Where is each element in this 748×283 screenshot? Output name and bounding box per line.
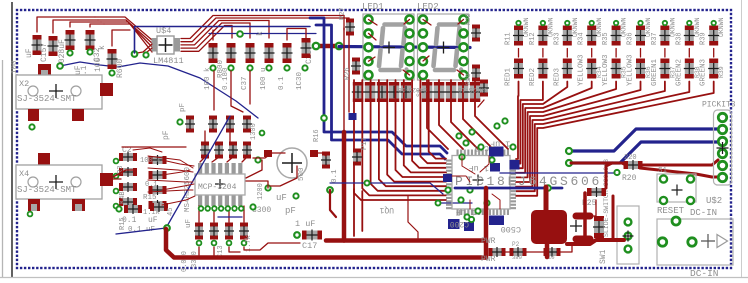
svg-text:0.1: 0.1 bbox=[145, 181, 158, 189]
label R25 bbox=[582, 199, 597, 208]
resistor R18 bbox=[352, 149, 362, 166]
wire fan into U1 top pins bbox=[427, 80, 508, 149]
capacitor C36 bbox=[264, 43, 275, 63]
wire X4 pad to cluster bbox=[113, 170, 134, 179]
via under C31 bbox=[67, 50, 72, 55]
wire bbox=[122, 146, 186, 148]
power mosfet Q1 pad bbox=[531, 210, 567, 244]
resistor R48 bbox=[457, 82, 469, 102]
capacitor C40 (bottom layer) bbox=[489, 147, 504, 157]
display pad bbox=[365, 57, 373, 65]
trimpot R16 bbox=[264, 148, 318, 178]
pad X4 bottom-right bbox=[72, 199, 85, 211]
via bbox=[143, 52, 148, 57]
svg-text:YELLOW3: YELLOW3 bbox=[602, 54, 610, 86]
resistor R17 bbox=[321, 152, 331, 169]
resistor R44 bbox=[400, 82, 412, 102]
via bbox=[237, 31, 243, 37]
cross bbox=[570, 220, 582, 232]
label SW1 bbox=[599, 249, 608, 264]
label GREEN1 bbox=[651, 58, 659, 86]
via bbox=[638, 21, 642, 25]
svg-text:X4: X4 bbox=[19, 169, 29, 179]
header pad 2 bbox=[718, 125, 726, 133]
thick vertical trace bbox=[342, 132, 347, 241]
resistor RM0 bbox=[149, 155, 167, 165]
pad X2 right bbox=[100, 83, 113, 96]
svg-text:k: k bbox=[98, 45, 107, 50]
vias bbox=[177, 119, 332, 209]
label LED2 bbox=[417, 2, 439, 12]
via bbox=[321, 115, 327, 121]
display pad bbox=[365, 71, 373, 79]
thick tab upper bbox=[576, 213, 590, 220]
via row under MCP bbox=[199, 206, 244, 211]
svg-text:R27: R27 bbox=[339, 7, 347, 20]
capacitor C57 bbox=[242, 116, 252, 133]
resistor R29 bbox=[479, 80, 489, 97]
capacitor C60 bbox=[194, 223, 204, 240]
label YELLOW3 bbox=[627, 54, 635, 86]
header pad 1 bbox=[718, 113, 726, 121]
display pad bbox=[406, 71, 414, 79]
label C30 bbox=[217, 245, 225, 258]
blue signal wire bbox=[60, 62, 258, 118]
via bbox=[687, 21, 691, 25]
svg-text:S1: S1 bbox=[658, 167, 668, 175]
label 100 left bbox=[11, 60, 19, 74]
blue under mcp bbox=[218, 216, 242, 218]
resistor R46 bbox=[433, 82, 445, 102]
svg-text:100: 100 bbox=[11, 60, 19, 74]
capacitor C102 (bottom layer) bbox=[489, 216, 504, 226]
wire bbox=[518, 49, 520, 58]
DC-IN pad3 bbox=[688, 238, 696, 246]
label bbox=[241, 76, 249, 90]
label R11 bbox=[505, 32, 513, 45]
label 10 bbox=[548, 254, 555, 261]
label LM4811 bbox=[153, 56, 184, 66]
blue thin trace bbox=[500, 172, 616, 174]
via bbox=[590, 21, 594, 25]
label C29 bbox=[305, 49, 314, 64]
SW1 pads bbox=[623, 219, 634, 253]
svg-text:GREEN3: GREEN3 bbox=[700, 58, 708, 86]
via bbox=[541, 21, 545, 25]
resistor RL3 bbox=[119, 197, 137, 207]
via bbox=[164, 225, 170, 231]
svg-text:SW1: SW1 bbox=[599, 249, 608, 264]
resistor R22 bbox=[471, 25, 481, 42]
capacitor C62 bbox=[224, 223, 234, 240]
label RED1 bbox=[505, 67, 513, 86]
switch S1 outline bbox=[657, 174, 696, 202]
connector DC-IN outline bbox=[657, 219, 733, 265]
label mirrored silk bbox=[398, 86, 427, 93]
display pad bbox=[419, 57, 427, 65]
resistor R26 bbox=[351, 58, 361, 75]
resistor R25 bbox=[587, 187, 606, 197]
blue thin trace bbox=[330, 183, 443, 194]
resistor R41 bbox=[364, 82, 376, 102]
label UQ1 bbox=[379, 205, 394, 214]
blue thin trace bbox=[438, 202, 472, 204]
svg-text:R22: R22 bbox=[465, 13, 472, 25]
label C40 bbox=[474, 143, 489, 152]
wire bbox=[348, 30, 350, 112]
via bbox=[116, 206, 121, 211]
label X4 bbox=[19, 169, 29, 179]
header U$2 outline bbox=[714, 110, 732, 185]
label UKNWN bbox=[572, 17, 579, 37]
svg-text:PWR: PWR bbox=[481, 237, 496, 246]
label silk bbox=[416, 89, 423, 97]
svg-text:X2: X2 bbox=[19, 79, 29, 89]
label YELLOW3 bbox=[578, 54, 586, 86]
label YELLOW3 bbox=[602, 54, 610, 86]
via bbox=[436, 201, 441, 206]
capacitor C41 (bottom layer) bbox=[510, 160, 520, 170]
svg-text:100 u: 100 u bbox=[260, 67, 268, 90]
wire bbox=[343, 28, 345, 132]
display pad bbox=[406, 57, 414, 65]
capacitor C104 (bottom layer) bbox=[349, 113, 357, 120]
thick trace bbox=[640, 168, 718, 177]
svg-text:RED3: RED3 bbox=[553, 67, 561, 86]
resistor R42 bbox=[376, 82, 388, 102]
resistor row2 RED3 bbox=[562, 59, 573, 79]
svg-text:1300: 1300 bbox=[250, 123, 258, 140]
label GREEN2 bbox=[675, 59, 683, 86]
microcontroller U1 pins bbox=[446, 150, 516, 216]
label pF bbox=[162, 130, 171, 140]
capacitor C34 bbox=[226, 43, 237, 63]
label 1 uF bbox=[295, 219, 315, 229]
wire bbox=[615, 49, 617, 58]
svg-text:C17: C17 bbox=[302, 241, 317, 251]
via bbox=[566, 160, 572, 166]
svg-text:R29: R29 bbox=[465, 73, 472, 85]
label R37 bbox=[651, 32, 659, 45]
label R600 bbox=[94, 45, 125, 78]
capacitor C31 bbox=[65, 30, 76, 50]
label RED3 bbox=[553, 67, 561, 86]
resistor R34 bbox=[586, 26, 597, 46]
resistor R11 bbox=[513, 26, 524, 46]
capacitor C28 bbox=[48, 36, 59, 56]
resistor row2 RED1 bbox=[513, 59, 524, 79]
wire mesh left of MCP bbox=[133, 148, 195, 205]
header pad 6 bbox=[718, 173, 726, 181]
resistor RM1 bbox=[149, 170, 167, 180]
label PWR bbox=[481, 237, 496, 246]
wire fan into U1 left pins bbox=[354, 80, 446, 236]
capacitor C103 (bottom layer) bbox=[443, 174, 452, 182]
svg-text:0.1: 0.1 bbox=[331, 169, 339, 183]
label 500 bbox=[298, 167, 306, 181]
via bbox=[210, 65, 215, 70]
wire mcp bottoms bbox=[199, 206, 244, 222]
capacitor C42 (bottom layer) bbox=[490, 163, 500, 172]
thick trace up bbox=[544, 187, 549, 212]
label C28 bbox=[58, 39, 67, 68]
label 1 uF mid bbox=[469, 163, 489, 173]
wire mcp tops bbox=[200, 131, 247, 162]
resistor R38 bbox=[684, 26, 695, 46]
wire trimpot to mcp bbox=[253, 153, 297, 186]
via bbox=[247, 65, 252, 70]
wire bundle from U$4 right bbox=[181, 16, 349, 52]
capacitor C37 bbox=[282, 43, 293, 63]
label R16 bbox=[313, 129, 321, 142]
resistor row2 GREEN3 bbox=[708, 59, 719, 79]
wire bbox=[37, 17, 95, 32]
svg-text:YELLOW3: YELLOW3 bbox=[578, 54, 586, 86]
wire bbox=[664, 49, 666, 58]
svg-text:RED2: RED2 bbox=[529, 68, 537, 86]
display pad bbox=[365, 16, 373, 24]
display pad bbox=[419, 43, 427, 51]
label uF bbox=[185, 219, 193, 228]
svg-text:0.1: 0.1 bbox=[278, 76, 286, 90]
label mirrored silk2 bbox=[458, 86, 487, 93]
thick trace sw1 up bbox=[612, 196, 615, 240]
label bbox=[260, 67, 268, 90]
thick trace bbox=[640, 160, 718, 165]
label R27 bbox=[339, 7, 347, 20]
svg-text:UQ1: UQ1 bbox=[379, 205, 394, 214]
label PICKIT3 bbox=[702, 101, 736, 110]
svg-text:PICKIT3: PICKIT3 bbox=[702, 101, 736, 110]
label P17 bbox=[361, 137, 369, 150]
svg-text:DC-IN: DC-IN bbox=[690, 268, 719, 279]
blue thick trace bottom of U1 bbox=[455, 187, 562, 190]
via bbox=[228, 65, 233, 70]
adc U2 MCP3204 body bbox=[195, 174, 245, 195]
svg-text:P2: P2 bbox=[512, 241, 520, 248]
label bbox=[278, 76, 286, 90]
switch SW1 outline bbox=[617, 206, 639, 264]
svg-text:RESET: RESET bbox=[657, 206, 685, 216]
label UKNWN bbox=[669, 17, 676, 37]
blue thick display trace bbox=[339, 47, 470, 48]
via bbox=[227, 241, 232, 246]
blue thin signal bbox=[135, 27, 311, 54]
capacitor C45 bbox=[593, 216, 605, 238]
switch S1 pads bbox=[660, 175, 694, 204]
label R3 bbox=[117, 166, 125, 174]
wire bbox=[688, 49, 690, 58]
label UKNWN bbox=[718, 17, 725, 37]
display pad bbox=[406, 43, 414, 51]
wire bbox=[369, 20, 464, 76]
resistor RM2 bbox=[149, 185, 167, 195]
label R45 bbox=[167, 208, 175, 216]
capacitor C35 bbox=[245, 43, 256, 63]
board outline edge line bbox=[11, 2, 13, 277]
resistor R43 bbox=[388, 82, 400, 102]
display pad bbox=[365, 29, 373, 37]
svg-text:R33: R33 bbox=[553, 32, 561, 45]
via bbox=[516, 21, 520, 25]
pad X2 top bbox=[38, 64, 51, 77]
capacitor C51 bbox=[214, 142, 224, 159]
svg-text:R34: R34 bbox=[578, 32, 586, 45]
label C32 bbox=[80, 47, 102, 80]
svg-text:uF: uF bbox=[148, 216, 158, 225]
label R37 bbox=[669, 66, 676, 78]
capacitor C101 (bottom layer) bbox=[464, 222, 474, 231]
label 1C30 bbox=[296, 71, 304, 90]
label MS4HE25600 bbox=[184, 166, 192, 212]
svg-text:uF: uF bbox=[185, 219, 193, 228]
capacitor C63 bbox=[239, 223, 249, 240]
DC-IN symbol bbox=[701, 234, 728, 248]
label bbox=[204, 67, 212, 90]
svg-text:LM4811: LM4811 bbox=[153, 56, 184, 66]
label C200 bbox=[450, 219, 469, 228]
label U$2 bbox=[706, 196, 722, 206]
via bbox=[663, 21, 667, 25]
label R20 bbox=[622, 174, 637, 183]
via bbox=[114, 204, 119, 209]
display pad bbox=[419, 16, 427, 24]
thick rail from cluster bbox=[166, 229, 486, 258]
label R12 bbox=[529, 32, 537, 45]
label C17 bbox=[302, 241, 317, 251]
svg-text:1 uF: 1 uF bbox=[490, 139, 510, 149]
via bbox=[336, 43, 342, 49]
resistor RL2 bbox=[119, 182, 137, 192]
label MCP3204 bbox=[198, 183, 237, 192]
label UKNWN bbox=[645, 17, 652, 37]
label R39 bbox=[718, 66, 725, 78]
display pad bbox=[460, 16, 468, 24]
wire bbox=[112, 30, 130, 46]
thick trace bbox=[317, 44, 338, 49]
label R34 bbox=[578, 32, 586, 45]
svg-text:R26: R26 bbox=[344, 67, 352, 80]
wire bbox=[542, 49, 544, 58]
label R15 bbox=[119, 217, 127, 230]
pad X4 bottom-left bbox=[28, 199, 40, 211]
display pad bbox=[406, 16, 414, 24]
label C31 bbox=[74, 65, 83, 75]
label 3300 bbox=[252, 206, 271, 215]
capacitor C52 bbox=[228, 142, 238, 159]
svg-text:LED1: LED1 bbox=[362, 2, 384, 12]
resistor R12 bbox=[537, 26, 548, 46]
svg-text:SA02S-18: SA02S-18 bbox=[458, 86, 487, 93]
label R26 bbox=[344, 67, 352, 80]
capacitor C33 bbox=[208, 43, 219, 63]
via bbox=[566, 148, 572, 154]
resistor R27 bbox=[345, 19, 355, 36]
capacitor C50 bbox=[200, 142, 210, 159]
svg-text:K4B: K4B bbox=[119, 191, 127, 204]
wire U$4 left to vias bbox=[137, 44, 152, 53]
svg-text:R15: R15 bbox=[143, 194, 157, 202]
pad X4 right bbox=[100, 173, 113, 186]
svg-text:U$2: U$2 bbox=[706, 196, 722, 206]
resistor R15b bbox=[124, 204, 142, 214]
label UKNWN bbox=[596, 17, 603, 37]
svg-text:PWR: PWR bbox=[481, 255, 496, 264]
microcontroller U1 body bbox=[452, 156, 510, 210]
svg-text:U$4: U$4 bbox=[156, 26, 171, 36]
svg-text:R12: R12 bbox=[529, 32, 537, 45]
capacitor C53 bbox=[242, 142, 252, 159]
wire below-MCP row to rail bbox=[199, 243, 300, 255]
svg-text:100 k: 100 k bbox=[204, 67, 212, 90]
svg-text:C500: C500 bbox=[501, 224, 521, 234]
label 380 bbox=[512, 254, 522, 261]
blue thick trace B bbox=[316, 25, 445, 159]
svg-text:0.030: 0.030 bbox=[181, 251, 189, 272]
resistor R36 bbox=[635, 26, 646, 46]
resistor R20 bbox=[624, 160, 643, 170]
display pad bbox=[460, 57, 468, 65]
capacitor C55 bbox=[208, 116, 218, 133]
display pad bbox=[419, 29, 427, 37]
thick rail mid bbox=[326, 238, 486, 243]
label R36 bbox=[627, 32, 635, 45]
label R33 bbox=[553, 32, 561, 45]
wire bbox=[53, 20, 98, 33]
resistor row2 YELLOW3 bbox=[611, 59, 622, 79]
svg-text:1C30: 1C30 bbox=[296, 71, 304, 90]
wire bbox=[566, 49, 568, 58]
DC-IN pad2 bbox=[658, 238, 666, 246]
resistor R23 bbox=[471, 65, 481, 82]
resistor R40 bbox=[352, 82, 364, 102]
via bbox=[114, 174, 119, 179]
capacitor C27 bbox=[32, 35, 43, 55]
resistor row2 YELLOW3 bbox=[586, 59, 597, 79]
display LED2 bbox=[418, 14, 469, 80]
wire bbox=[640, 49, 642, 58]
svg-text:R11: R11 bbox=[505, 32, 513, 45]
label 1.7k bbox=[245, 235, 253, 252]
right frame line bbox=[741, 0, 743, 277]
via bbox=[132, 51, 138, 57]
svg-text:R39: R39 bbox=[718, 66, 725, 78]
resistor RM3 bbox=[149, 200, 167, 210]
label X2 bbox=[19, 79, 29, 89]
label R34 bbox=[596, 66, 603, 78]
wire fan from LED resistors bbox=[516, 82, 714, 196]
blue thin signal 2 bbox=[209, 33, 316, 35]
label 1 uF bbox=[490, 139, 510, 149]
wire bbox=[713, 49, 715, 58]
label 220 bbox=[624, 154, 637, 162]
left jack barrel lines bbox=[2, 60, 4, 277]
resistor row2 GREEN1 bbox=[659, 59, 670, 79]
svg-text:R37: R37 bbox=[651, 32, 659, 45]
via bbox=[614, 170, 619, 175]
blue diagonal bbox=[116, 116, 230, 234]
via bbox=[29, 124, 34, 129]
display pad bbox=[406, 29, 414, 37]
via bbox=[565, 21, 569, 25]
display LED1 bbox=[363, 14, 414, 80]
resistor R49 bbox=[469, 82, 481, 102]
label R38 bbox=[675, 32, 683, 45]
wire bbox=[70, 22, 101, 27]
label SLIDE-SWITCH bbox=[603, 159, 610, 237]
label UKNWN bbox=[694, 17, 701, 37]
capacitor C17 bbox=[302, 230, 322, 241]
